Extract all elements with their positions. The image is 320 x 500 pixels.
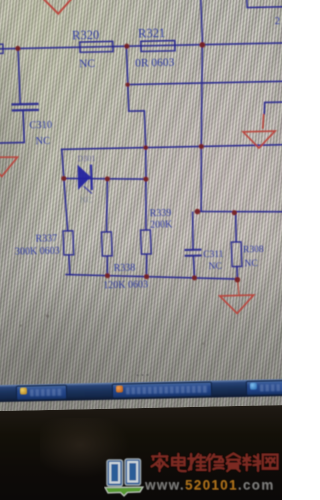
- svg-text:C310: C310: [29, 120, 52, 131]
- wire: [0, 110, 24, 143]
- node J12: [105, 273, 110, 278]
- capacitor C311: [184, 249, 224, 272]
- node J13: [144, 274, 149, 279]
- node J5: [143, 145, 148, 150]
- svg-text:300K 0603: 300K 0603: [15, 246, 60, 258]
- node J1: [15, 46, 20, 51]
- text 家电维修资料网: [152, 454, 278, 472]
- wire: [246, 0, 284, 8]
- wire: [107, 256, 108, 276]
- resistor R337: [14, 231, 74, 258]
- node J11: [232, 210, 237, 215]
- svg-text:C311: C311: [203, 250, 224, 260]
- node J10: [195, 209, 201, 215]
- wire: [65, 271, 237, 283]
- node J9: [143, 176, 148, 181]
- wire: [193, 256, 194, 278]
- svg-text:NC: NC: [244, 259, 258, 269]
- svg-text:www.520101.com: www.520101.com: [144, 478, 275, 493]
- node J14: [192, 275, 197, 280]
- node J7: [61, 176, 66, 181]
- svg-text:0R 0603: 0R 0603: [135, 57, 175, 70]
- wire: [194, 209, 291, 213]
- wire (screen ticks): [137, 374, 149, 376]
- svg-text:2: 2: [274, 15, 280, 27]
- ground G2 stem: [238, 280, 239, 296]
- resistor R308: [231, 241, 264, 269]
- svg-text:R308: R308: [243, 245, 264, 255]
- node A (left pin stub): [0, 44, 3, 53]
- resistor R338: [101, 231, 148, 291]
- svg-text:NC: NC: [208, 262, 222, 272]
- wire: [64, 177, 146, 181]
- speck: [46, 314, 49, 317]
- logo: open book: [105, 459, 143, 496]
- net arrow (top): [42, 0, 75, 14]
- wire: [146, 254, 148, 277]
- node J3: [199, 42, 205, 48]
- wire: [143, 148, 149, 230]
- wire: [68, 255, 71, 275]
- svg-text:R320: R320: [72, 28, 100, 43]
- ground G2: [220, 295, 255, 314]
- node J4: [125, 82, 130, 86]
- schematic svg goes here: [0, 0, 297, 394]
- svg-text:NC: NC: [79, 58, 96, 70]
- wire: [127, 81, 287, 84]
- ground (left edge arrow): [0, 157, 18, 177]
- wire: [235, 213, 237, 242]
- svg-text:D301: D301: [77, 154, 95, 163]
- wire: [195, 45, 208, 212]
- text www.520101.com: [144, 478, 275, 494]
- node J15: [235, 277, 241, 283]
- capacitor C310: [11, 104, 52, 148]
- svg-text:R337: R337: [35, 233, 57, 244]
- wire: [0, 43, 285, 49]
- node J8: [105, 176, 110, 181]
- svg-text:NC: NC: [35, 136, 50, 147]
- ground G1: [243, 131, 276, 148]
- resistor R339: [140, 208, 174, 254]
- resistor R320: [72, 28, 114, 71]
- wire: [61, 145, 289, 150]
- watermark: [104, 448, 282, 500]
- wire: [18, 48, 20, 104]
- svg-text:200K: 200K: [150, 219, 173, 230]
- ground G1 stem: [262, 114, 264, 129]
- node J2: [124, 44, 129, 49]
- wire: [264, 102, 288, 115]
- svg-text:NC: NC: [80, 195, 93, 205]
- wire: [62, 149, 68, 231]
- wire: [236, 267, 239, 280]
- svg-text:R338: R338: [113, 263, 135, 274]
- wire: [192, 212, 194, 250]
- wire: [126, 46, 145, 148]
- wire: [105, 179, 110, 232]
- svg-text:R339: R339: [149, 208, 171, 219]
- svg-text:R321: R321: [138, 26, 166, 41]
- diode D301: [77, 154, 97, 205]
- wire: [200, 0, 202, 45]
- svg-text:120K 0603: 120K 0603: [103, 279, 148, 291]
- resistor R321: [134, 26, 176, 70]
- node J6: [199, 144, 204, 149]
